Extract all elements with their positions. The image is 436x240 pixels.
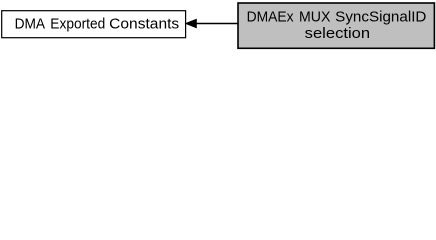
node DMA Exported Constants (label) — [15, 17, 180, 33]
svg-text:Constants: Constants — [109, 17, 179, 33]
svg-text:Exported: Exported — [50, 17, 105, 33]
node DMAEx MUX SyncSignalID selection (label line 2) — [305, 26, 370, 42]
svg-text:selection: selection — [305, 26, 370, 42]
edge arrowhead pointing at DMA Exported Constants — [186, 19, 196, 27]
svg-text:DMAEx: DMAEx — [247, 9, 295, 25]
node DMA Exported Constants (box) — [2, 11, 186, 38]
edge shaft (dependency arrow wire) — [196, 23, 238, 25]
svg-text:SyncSignalID: SyncSignalID — [335, 9, 426, 25]
svg-text:MUX: MUX — [299, 9, 331, 25]
background — [0, 0, 436, 51]
node DMAEx MUX SyncSignalID selection (label line 1) — [247, 9, 427, 25]
node DMAEx MUX SyncSignalID selection (box, current node, grey fill) — [238, 3, 434, 48]
svg-text:DMA: DMA — [15, 17, 46, 33]
